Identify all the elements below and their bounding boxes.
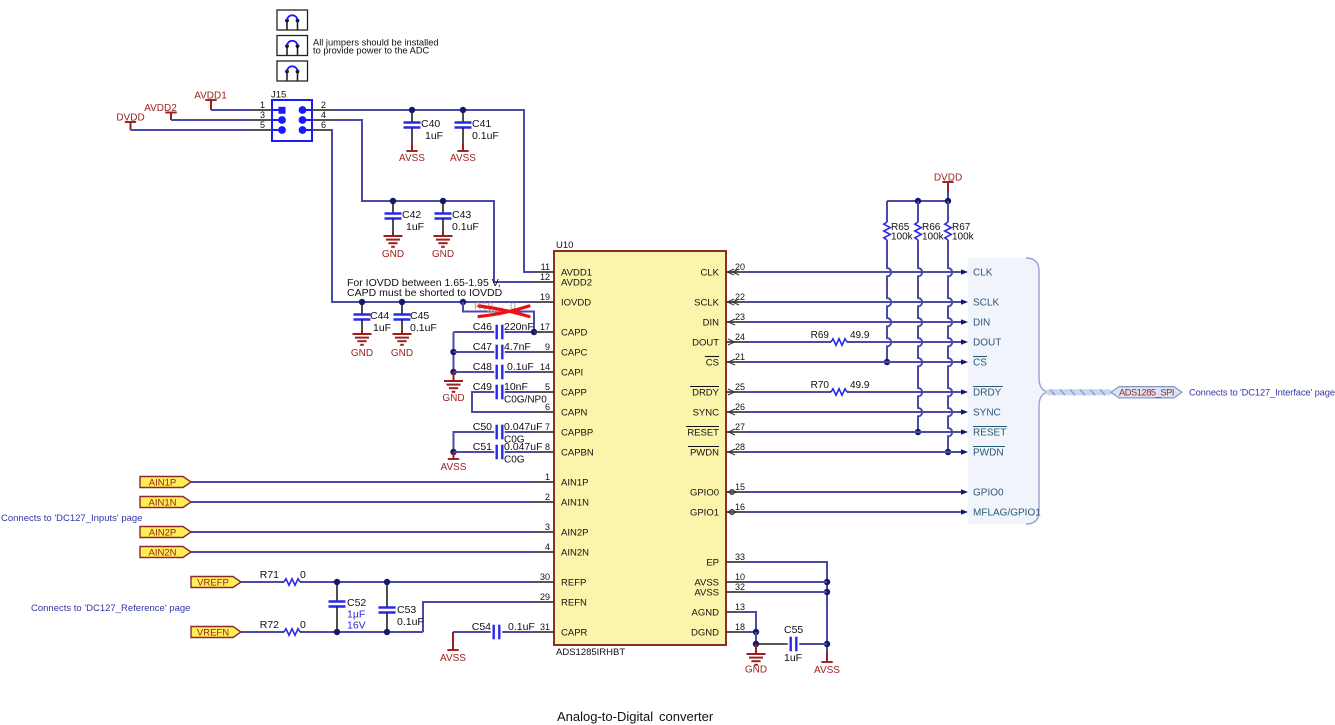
svg-text:33: 33 [735,552,745,562]
ground GND (C43) [434,235,453,237]
wire REFN to pin29 [423,602,534,632]
svg-text:DIN: DIN [703,317,720,328]
svg-text:C0G/NP0: C0G/NP0 [504,395,547,406]
capacitor C45 [401,303,403,315]
wire AVDD2 to J15 pin3 [171,119,251,121]
ground GND (C45) [393,333,412,335]
wire CAPP-CAPN loop [505,391,534,393]
svg-text:0.1uF: 0.1uF [397,616,424,628]
wire GND bus (C46-C48) [453,332,455,378]
svg-text:SCLK: SCLK [973,298,999,309]
svg-text:11: 11 [541,262,550,272]
svg-text:GND: GND [442,393,464,404]
harness bus [1046,389,1112,395]
svg-text:DOUT: DOUT [692,337,719,348]
svg-text:26: 26 [735,402,745,412]
svg-text:AIN1P: AIN1P [561,477,588,488]
power AVSS (C40) [406,150,417,152]
svg-text:CAPP: CAPP [561,387,587,398]
svg-text:24: 24 [735,332,745,342]
power DVDD (pullups) [942,181,953,183]
svg-text:CAPBP: CAPBP [561,427,593,438]
svg-text:ADS1285IRHBT: ADS1285IRHBT [556,647,625,658]
svg-text:AIN2N: AIN2N [561,547,589,558]
U10 pin 1 AIN1P [534,481,554,483]
svg-text:29: 29 [540,592,550,602]
U10 pin 18 DGND [726,631,746,633]
jumper graphic 3 [277,61,308,81]
svg-text:C44: C44 [370,310,389,322]
U10 pin 24 DOUT [726,341,746,343]
svg-text:C49: C49 [473,381,492,393]
svg-text:28: 28 [735,442,745,452]
capacitor C51 [496,445,498,460]
jumper graphic 1 [277,10,308,30]
J15 pin 1 stub [251,109,272,111]
svg-text:30: 30 [540,572,550,582]
svg-text:1uF: 1uF [406,221,424,233]
ground GND (DGND) [755,644,757,654]
svg-text:CAPD must be shorted to IOVDD: CAPD must be shorted to IOVDD [347,287,503,299]
wire CAPI net [505,371,534,373]
svg-text:1: 1 [260,100,265,110]
svg-text:4: 4 [321,110,326,120]
resistor R70 49.9 [831,389,847,395]
svg-text:Analog-to-Digital: Analog-to-Digital [557,709,653,724]
svg-text:C43: C43 [452,209,471,221]
svg-text:0.1uF: 0.1uF [508,621,535,633]
wire REFN net [302,631,423,633]
svg-text:AIN2P: AIN2P [561,527,588,538]
capacitor C52 [336,583,338,602]
U10 pin 30 REFP [534,581,554,583]
svg-text:3: 3 [260,110,265,120]
capacitor C43 [442,202,444,214]
svg-text:1uF: 1uF [425,130,443,142]
svg-text:DOUT: DOUT [973,338,1001,349]
wire CS net [746,361,961,363]
svg-text:AVSS: AVSS [399,153,425,164]
svg-text:GPIO0: GPIO0 [690,487,719,498]
J15 pin 2 stub [312,109,333,111]
resistor R69 49.9 [831,339,847,345]
capacitor C40 [411,111,413,123]
ground GND (cap bus) [453,372,455,381]
wire AVSS pin32 net [746,591,827,593]
svg-text:DRDY: DRDY [973,388,1002,399]
U10 pin 3 AIN2P [534,531,554,533]
capacitor C48 [496,365,498,380]
svg-text:13: 13 [735,602,745,612]
wire AGND net [746,612,756,632]
U10 pin 8 CAPBN [534,451,554,453]
svg-text:49.9: 49.9 [850,330,870,341]
capacitor C50 [496,425,498,440]
wire CAPR net [453,631,491,633]
U10 pin 15 GPIO0 [726,491,746,493]
svg-text:C42: C42 [402,209,421,221]
svg-text:AGND: AGND [692,607,720,618]
svg-text:CAPD: CAPD [561,327,588,338]
svg-text:5: 5 [260,120,265,130]
capacitor C42 [392,202,394,214]
wire DGND net [746,631,756,633]
svg-text:C41: C41 [472,118,491,130]
svg-text:R69: R69 [811,330,830,341]
svg-text:C54: C54 [472,621,491,633]
svg-text:C52: C52 [347,597,366,609]
port AIN1P [140,477,191,488]
U10 pin 21 CS [726,361,746,363]
power AVSS (C54) [452,632,454,650]
J15 pin 4 stub [312,119,333,121]
svg-text:C46: C46 [473,321,492,333]
resistor R71 [241,581,282,583]
svg-text:0.1uF: 0.1uF [472,130,499,142]
wire CAPBN net [505,451,534,453]
svg-text:0.1uF: 0.1uF [410,322,437,334]
svg-text:AVSS: AVSS [694,587,719,598]
U10 pin 4 AIN2N [534,551,554,553]
svg-text:AVDD2: AVDD2 [561,277,592,288]
svg-text:10nF: 10nF [504,381,528,393]
resistor R68 (not installed) [488,308,504,314]
svg-text:32: 32 [735,582,745,592]
J15 pin 5 stub [251,129,272,131]
svg-text:CS: CS [706,357,719,368]
wire GPIO1 net [746,511,961,513]
U10 pin 5 CAPP [534,391,554,393]
svg-text:19: 19 [540,292,550,302]
svg-text:23: 23 [735,312,745,322]
svg-text:CLK: CLK [701,267,720,278]
svg-text:IOVDD: IOVDD [561,297,591,308]
svg-text:C47: C47 [473,341,492,353]
svg-text:VREFP: VREFP [197,577,229,588]
harness brace panel [968,258,1048,524]
svg-text:EP: EP [706,557,719,568]
U10 pin 13 AGND [726,611,746,613]
wire AVDD1 to J15 pin1 [211,109,251,111]
capacitor C46 [496,325,498,340]
svg-text:C55: C55 [784,624,803,636]
wire DRDY net [746,391,829,393]
svg-text:GPIO1: GPIO1 [690,507,719,518]
svg-text:0.1uF: 0.1uF [507,361,534,373]
port AIN2P [140,527,191,538]
J15 pin 3 stub [251,119,272,121]
U10 pin 17 CAPD [534,331,554,333]
wire CAPBP net [505,431,534,433]
svg-text:CS: CS [973,358,987,369]
wire SYNC net [746,411,961,413]
wire EP net [746,562,827,652]
wire DOUT net [746,341,829,343]
svg-text:DGND: DGND [691,627,719,638]
svg-text:8: 8 [545,442,550,452]
port AIN1N [140,497,191,508]
svg-text:GND: GND [391,348,413,359]
wire RESET net [746,431,961,433]
svg-text:DVDD: DVDD [116,113,144,124]
ground GND (C42) [384,235,403,237]
svg-text:18: 18 [735,622,745,632]
U10 pin 27 RESET [726,431,746,433]
power DVDD (left) [125,121,136,123]
resistor R67 100k [947,201,949,222]
svg-text:SYNC: SYNC [693,407,720,418]
wire DVDD to J15 pin5 [131,129,252,131]
resistor R66 100k [917,201,919,222]
svg-text:0: 0 [300,569,306,581]
svg-text:C40: C40 [421,118,440,130]
svg-text:R71: R71 [260,569,279,581]
svg-text:CAPR: CAPR [561,627,588,638]
svg-text:to provide power to the ADC: to provide power to the ADC [313,46,430,56]
power AVDD1 [205,99,216,101]
wire AIN2P net [191,531,534,533]
wire CLK net [746,271,961,273]
U10 pin 26 SYNC [726,411,746,413]
svg-text:Connects to 'DC127_Interface': Connects to 'DC127_Interface' page [1189,387,1335,397]
svg-text:CAPC: CAPC [561,347,588,358]
svg-text:Connects to 'DC127_Reference': Connects to 'DC127_Reference' page [31,603,190,614]
svg-text:4: 4 [545,542,550,552]
wire REFP net [302,581,534,583]
svg-text:21: 21 [735,352,745,362]
svg-text:CAPI: CAPI [561,367,583,378]
svg-text:GND: GND [745,665,767,676]
svg-text:7: 7 [545,422,550,432]
port VREFP [191,577,241,588]
svg-text:2: 2 [545,492,550,502]
svg-text:9: 9 [545,342,550,352]
wire IOVDD net [332,130,534,302]
svg-text:C48: C48 [473,361,492,373]
svg-text:RESET: RESET [973,428,1006,439]
U10 pin 10 AVSS [726,581,746,583]
U10 pin 9 CAPC [534,351,554,353]
svg-text:SYNC: SYNC [973,408,1001,419]
U10 pin 19 IOVDD [534,301,554,303]
wire AIN2N net [191,551,534,553]
svg-text:GND: GND [432,249,454,260]
svg-text:100k: 100k [891,232,914,243]
port VREFN [191,627,241,638]
U10 pin 32 AVSS [726,591,746,593]
power AVSS (cap bus) [453,452,455,459]
svg-text:Connects to 'DC127_Inputs' pag: Connects to 'DC127_Inputs' page [1,513,142,524]
jumper graphic 2 [277,36,308,56]
svg-text:AIN2P: AIN2P [149,527,176,538]
U10 pin 25 DRDY [726,391,746,393]
U10 pin 33 EP [726,561,746,563]
svg-text:C0G: C0G [504,455,525,466]
svg-text:AVDD2: AVDD2 [144,103,177,114]
U10 pin 28 PWDN [726,451,746,453]
svg-text:5: 5 [545,382,550,392]
U10 pin 2 AIN1N [534,501,554,503]
U10 pin 29 REFN [534,601,554,603]
svg-text:REFN: REFN [561,597,587,608]
svg-text:12: 12 [540,272,550,282]
svg-text:AIN1N: AIN1N [561,497,589,508]
svg-text:25: 25 [735,382,745,392]
svg-text:C53: C53 [397,604,416,616]
svg-text:CAPN: CAPN [561,407,588,418]
svg-text:AIN2N: AIN2N [149,547,177,558]
U10 pin 12 AVDD2 [534,281,554,283]
svg-text:DRDY: DRDY [692,387,720,398]
svg-text:220nF: 220nF [504,321,534,333]
svg-text:C51: C51 [473,441,492,453]
power AVDD2 [165,112,176,114]
svg-text:GPIO0: GPIO0 [973,488,1004,499]
svg-text:AIN1P: AIN1P [149,477,176,488]
power AVSS (C41) [457,150,468,152]
U10 pin 31 CAPR [534,631,554,633]
svg-text:31: 31 [540,622,550,632]
svg-text:16V: 16V [347,620,366,632]
power AVSS (EP) [826,652,828,662]
svg-text:DVDD: DVDD [934,173,962,184]
svg-text:AVSS: AVSS [440,653,466,664]
wire CAPC net [505,351,534,353]
capacitor C55 [790,637,792,652]
svg-text:14: 14 [540,362,550,372]
svg-text:RESET: RESET [687,427,719,438]
svg-text:4.7nF: 4.7nF [504,341,531,353]
wire AVSS pin10 net [746,581,827,583]
resistor R65 100k [886,201,888,222]
svg-text:AVSS: AVSS [814,665,840,676]
svg-text:AVSS: AVSS [441,462,467,473]
svg-text:ADS1285_SPI: ADS1285_SPI [1119,387,1174,397]
svg-text:C45: C45 [410,310,429,322]
svg-text:6: 6 [545,402,550,412]
svg-text:R72: R72 [260,619,279,631]
resistor R72 [241,631,282,633]
U10 pin 7 CAPBP [534,431,554,433]
svg-text:AVSS: AVSS [450,153,476,164]
wire SCLK net [746,301,961,303]
svg-text:17: 17 [540,322,550,332]
svg-text:10: 10 [735,572,745,582]
svg-text:R70: R70 [811,380,830,391]
svg-text:VREFN: VREFN [197,627,229,638]
port AIN2N [140,547,191,558]
svg-text:CAPBN: CAPBN [561,447,594,458]
sheet entry ADS1285_SPI [1111,387,1182,398]
svg-text:49.9: 49.9 [850,380,870,391]
capacitor C41 [462,111,464,123]
capacitor C47 [496,345,498,360]
wire R68 branch [463,302,534,332]
svg-text:1uF: 1uF [784,652,802,664]
svg-text:C50: C50 [473,421,492,433]
svg-text:27: 27 [735,422,745,432]
svg-text:100k: 100k [922,232,945,243]
svg-text:GND: GND [351,348,373,359]
capacitor C54 [493,625,495,640]
svg-text:J15: J15 [271,90,286,101]
wire AVDD1 net [333,110,534,272]
svg-text:1uF: 1uF [373,322,391,334]
U10 pin 22 SCLK [726,301,746,303]
svg-text:converter: converter [659,709,714,724]
IC U10 ADS1285 [554,251,726,645]
capacitor C44 [361,303,363,315]
wire CAPD net [505,331,534,333]
svg-text:0.1uF: 0.1uF [452,221,479,233]
J15 pin 6 stub [312,129,333,131]
U10 pin 6 CAPN [534,411,554,413]
svg-text:PWDN: PWDN [973,448,1004,459]
capacitor C49 [496,385,498,400]
U10 pin 16 GPIO1 [726,511,746,513]
wire DIN net [746,321,961,323]
svg-text:MFLAG/GPIO1: MFLAG/GPIO1 [973,508,1041,519]
wire AIN1P net [191,481,534,483]
svg-text:15: 15 [735,482,745,492]
svg-text:REFP: REFP [561,577,586,588]
svg-text:SCLK: SCLK [694,297,719,308]
svg-text:CLK: CLK [973,268,993,279]
svg-text:AIN1N: AIN1N [149,497,177,508]
wire pullup rail [887,200,948,202]
svg-text:DIN: DIN [973,318,990,329]
svg-text:GND: GND [382,249,404,260]
svg-text:1: 1 [545,472,550,482]
connector J15 [272,100,312,141]
U10 pin 20 CLK [726,271,746,273]
svg-text:AVDD1: AVDD1 [194,91,227,102]
U10 pin 14 CAPI [534,371,554,373]
svg-text:3: 3 [545,522,550,532]
svg-text:100k: 100k [952,232,975,243]
svg-text:PWDN: PWDN [690,447,719,458]
wire AVDD2 net [333,120,534,282]
wire GPIO0 net [746,491,961,493]
ground GND (C44) [353,333,372,335]
svg-text:U10: U10 [556,240,573,251]
U10 pin 23 DIN [726,321,746,323]
U10 pin 11 AVDD1 [534,271,554,273]
svg-text:0: 0 [300,619,306,631]
capacitor C53 [386,583,388,608]
svg-text:6: 6 [321,120,326,130]
wire C55 net [756,643,788,645]
wire PWDN net [746,451,961,453]
svg-text:16: 16 [735,502,745,512]
svg-text:2: 2 [321,100,326,110]
wire AIN1N net [191,501,534,503]
